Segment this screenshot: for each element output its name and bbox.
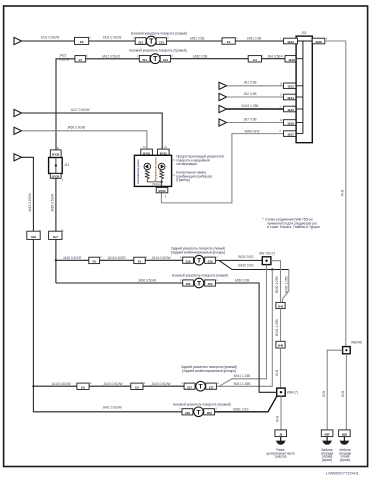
svg-text:Z13: Z13: [159, 40, 164, 44]
off-page connector arrow A3: [14, 127, 22, 134]
svg-text:JB2 0.5B: JB2 0.5B: [244, 92, 257, 96]
svg-text:Контрольная лампа: Контрольная лампа: [153, 157, 157, 181]
svg-text:J41: J41: [64, 163, 69, 167]
junction dot row A branch: [55, 259, 57, 261]
right side pin box row1: [312, 38, 325, 44]
svg-text:EA01 1.25B: EA01 1.25B: [241, 104, 258, 108]
svg-text:H42: H42: [278, 305, 284, 309]
svg-text:E8: E8: [80, 40, 84, 44]
J41 top pin box: [50, 150, 61, 158]
block internal bus: [302, 41, 304, 134]
svg-text:B441 1.25B: B441 1.25B: [234, 374, 251, 378]
block pin stubs: [296, 40, 312, 42]
wire B430 0.5G lower fork: [219, 260, 289, 269]
svg-text:Сигнализатор указат.: Сигнализатор указат.: [136, 159, 140, 184]
wire W-B from block to right trunk: [325, 41, 346, 347]
svg-text:1E16: 1E16: [287, 121, 294, 125]
svg-text:B441 1.25B: B441 1.25B: [275, 319, 279, 336]
svg-text:и стран: Европа, Тайвань и Тур: и стран: Европа, Тайвань и Турция: [267, 225, 320, 229]
cluster bottom pin box: [156, 188, 168, 193]
connector B92: [339, 430, 351, 437]
svg-text:[Задний комбинированный фонарь: [Задний комбинированный фонарь]: [171, 250, 225, 254]
annotation leader line 1: [172, 159, 176, 161]
svg-text:1E6: 1E6: [31, 235, 36, 239]
wire to vertical x33.4: [22, 157, 34, 231]
resistor zigzag right: [160, 170, 164, 182]
lamp A connector right: [205, 257, 216, 263]
svg-text:1E17: 1E17: [287, 132, 294, 136]
svg-text:JA50 0.5G/B: JA50 0.5G/B: [138, 279, 156, 283]
indicator lamp left: [144, 163, 151, 170]
lamp A connector left: [183, 257, 194, 263]
svg-text:1E13: 1E13: [287, 85, 294, 89]
svg-text:JA13 0.5G/W: JA13 0.5G/W: [152, 382, 171, 386]
wire to left ground branch: [327, 350, 342, 430]
wire JA58 0.5G/B to cluster left pin: [22, 131, 147, 149]
wire JA11 0.5G/W segment 2: [89, 40, 136, 42]
connector E4 row1: [222, 38, 235, 44]
connector E3: [134, 257, 145, 263]
wire JA50 0.5B return: [215, 283, 276, 392]
svg-text:WB04B: WB04B: [351, 340, 362, 344]
svg-text:JA12 0.5G/O: JA12 0.5G/O: [102, 54, 121, 58]
wire from WN-750 right down to H42: [271, 261, 281, 303]
off-page connector arrow A6: [219, 93, 227, 100]
J41 bottom pin box: [50, 174, 61, 179]
lamp D bulb: [194, 407, 204, 417]
wire JA17 0.5G/W to cluster right pin: [22, 113, 163, 149]
svg-text:JA13 0.5G/W: JA13 0.5G/W: [28, 193, 32, 212]
wire JB2 0.5B: [227, 96, 284, 98]
off-page connector arrow A2: [14, 109, 22, 116]
junction dot on lower wire: [271, 268, 273, 270]
svg-text:W-B: W-B: [341, 190, 345, 196]
svg-text:WB4 (*): WB4 (*): [287, 391, 298, 395]
svg-text:W-B: W-B: [341, 391, 345, 397]
lamp D connector right: [204, 409, 215, 415]
wire H46 down to junction box WB4: [280, 348, 282, 388]
wire B081 2.0G return to WB4: [215, 396, 277, 412]
svg-text:Боковой указатель поворота (ле: Боковой указатель поворота (левый): [172, 274, 228, 278]
wire JA50 0.5G/B feed: [56, 282, 183, 284]
connector L1: [27, 231, 40, 239]
wire MAIN W-B from cluster ground: [161, 134, 283, 203]
junction block J52: [296, 36, 312, 143]
junction box WB04B: [343, 347, 351, 354]
svg-text:JB7 0.5B: JB7 0.5B: [244, 117, 257, 121]
svg-text:JA51 0.5B: JA51 0.5B: [247, 37, 262, 41]
svg-text:JA58 0.5G/B: JA58 0.5G/B: [67, 125, 85, 129]
wire from junction dot down to row C lower: [217, 270, 272, 387]
svg-text:Z16: Z16: [186, 259, 191, 263]
svg-text:B030 0.5G: B030 0.5G: [238, 255, 254, 259]
connector E8: [75, 37, 89, 44]
connector E6: [77, 383, 89, 389]
svg-text:Z17: Z17: [209, 385, 214, 389]
resistor zigzag left: [145, 170, 149, 182]
lamp B connector right: [205, 280, 216, 286]
wire L1 down to rows C and D: [32, 239, 34, 412]
lamp B bulb: [194, 278, 204, 288]
svg-text:JA13 0.5G/W: JA13 0.5G/W: [104, 382, 123, 386]
svg-text:H46: H46: [278, 344, 284, 348]
wire JB1 0.5B: [227, 85, 284, 87]
svg-text:(Прибор): (Прибор): [152, 183, 162, 186]
svg-text:E7: E7: [79, 58, 83, 62]
svg-text:JA16 0.5G/R: JA16 0.5G/R: [107, 256, 126, 260]
svg-text:JA41 0.5G/W: JA41 0.5G/W: [103, 406, 122, 410]
svg-text:1E15: 1E15: [287, 108, 294, 112]
wire corner from row2 to vertical: [56, 59, 139, 150]
svg-text:1E18: 1E18: [315, 40, 322, 44]
svg-text:E3: E3: [138, 259, 142, 263]
svg-text:1E10: 1E10: [288, 58, 295, 62]
svg-text:JA52 0.5B: JA52 0.5B: [193, 54, 208, 58]
wire JA41 0.5G/W feed: [33, 411, 182, 413]
wire from WB4 down to frame ground: [280, 396, 282, 430]
svg-text:0.5G/B: 0.5G/B: [59, 57, 69, 61]
svg-text:(шасси): (шасси): [275, 455, 287, 459]
svg-text:J52: J52: [301, 31, 306, 35]
svg-text:1E7: 1E7: [53, 235, 58, 239]
wire from WN-750 bottom to row C upper: [219, 265, 267, 387]
cluster top pin box left: [141, 149, 153, 155]
lamp L2 connector left: [139, 55, 150, 62]
connector B2r: [248, 56, 261, 62]
connector J9: [275, 430, 287, 437]
svg-text:JA16 0.5G/R: JA16 0.5G/R: [51, 193, 55, 212]
wire JA11 0.5G/W segment 1: [22, 40, 75, 42]
junction box WN-750: [262, 257, 271, 265]
svg-text:сигнализации: сигнализации: [176, 162, 197, 166]
cluster body: [134, 155, 171, 186]
svg-text:Боковой указатель поворота (пр: Боковой указатель поворота (правый): [173, 403, 230, 407]
off-page connector arrow A1: [14, 37, 22, 44]
svg-text:JB1 0.5B: JB1 0.5B: [244, 81, 257, 85]
wire L2 down to rows A and B: [55, 239, 57, 283]
wire JA16 0.5G/R segment 2: [100, 259, 134, 261]
lamp L1 bulb: [146, 36, 156, 46]
lamp C connector left: [184, 383, 195, 389]
svg-text:JA51 0.5B: JA51 0.5B: [190, 37, 205, 41]
lamp L2 connector right: [160, 55, 170, 62]
svg-text:1E14: 1E14: [287, 96, 294, 100]
connector B2: [75, 56, 86, 62]
off-page connector arrow A8: [219, 119, 227, 126]
off-page connector arrow A5: [219, 82, 227, 89]
wire JA51 0.5B: [167, 40, 284, 42]
svg-text:BY30: BY30: [52, 174, 59, 178]
svg-text:Боковой указатель поворота (пр: Боковой указатель поворота (правый): [129, 48, 186, 52]
indicator lamp right: [158, 163, 165, 170]
svg-text:Z22: Z22: [186, 282, 191, 286]
svg-text:BY02: BY02: [158, 189, 165, 193]
ground symbol frame: [276, 437, 286, 445]
svg-text:B031 1.25B: B031 1.25B: [234, 382, 251, 386]
wire JB4 0.5B segment 2: [262, 58, 286, 60]
svg-text:1E12: 1E12: [287, 40, 294, 44]
wire JA13 0.5G/W segment 1: [33, 385, 77, 387]
svg-text:B081 2.0G: B081 2.0G: [233, 407, 249, 411]
off-page connector arrow A4: [14, 154, 22, 161]
cluster top pin box right: [158, 149, 170, 155]
svg-text:Z14: Z14: [142, 58, 147, 62]
svg-text:E4: E4: [227, 40, 231, 44]
lamp D connector left: [182, 409, 193, 415]
svg-text:Z22: Z22: [208, 282, 213, 286]
svg-text:Z13: Z13: [138, 40, 143, 44]
lamp L2 bulb: [150, 54, 160, 64]
ground symbol cab right: [322, 437, 332, 445]
svg-text:(кузов): (кузов): [340, 458, 350, 462]
svg-text:B030 1.25B: B030 1.25B: [275, 276, 279, 293]
svg-text:E9: E9: [135, 385, 139, 389]
connector E5: [89, 257, 100, 263]
svg-text:JA11 0.5G/W: JA11 0.5G/W: [41, 36, 60, 40]
off-page connector arrow A7: [219, 105, 227, 112]
svg-text:JA14 0.5G/W: JA14 0.5G/W: [152, 256, 171, 260]
svg-text:Z23: Z23: [207, 411, 212, 415]
wire JA13 0.5G/W segment 2: [89, 385, 131, 387]
wire JA13 0.5G/W segment 3: [143, 385, 184, 387]
connector L2: [49, 231, 62, 239]
wire EA01 1.25B: [227, 108, 284, 110]
svg-text:E5: E5: [92, 259, 96, 263]
cluster internal join wire: [147, 182, 161, 187]
relay block pin box row1: [284, 38, 298, 44]
ground symbol cab left: [340, 437, 350, 445]
lamp C bulb: [196, 381, 206, 391]
svg-text:Z14: Z14: [163, 58, 168, 62]
connector E9: [131, 383, 143, 389]
svg-text:B92: B92: [342, 432, 348, 436]
wire JB7 0.5B: [227, 122, 284, 124]
svg-text:E6: E6: [81, 385, 85, 389]
junction dot row C branch: [32, 385, 34, 387]
svg-text:JA16 0.5G/R: JA16 0.5G/R: [63, 256, 82, 260]
wire B030 0.5G upper to WN-750: [215, 259, 262, 261]
wire JA16 0.5G/R segment 1: [56, 259, 89, 261]
svg-text:B430 0.5G: B430 0.5G: [238, 263, 254, 267]
wire H42 to H46: [280, 309, 282, 342]
svg-text:W-B: W-B: [276, 416, 280, 422]
lamp A bulb: [194, 255, 204, 265]
svg-text:Z23: Z23: [185, 411, 190, 415]
svg-text:JA11 0.5G/W: JA11 0.5G/W: [103, 36, 122, 40]
lamp L1 connector Z13 right: [156, 38, 166, 45]
svg-text:E4: E4: [253, 58, 257, 62]
svg-text:[Задний комбинированный фонарь: [Задний комбинированный фонарь]: [182, 369, 236, 373]
svg-text:JA50 0.5B: JA50 0.5B: [235, 279, 250, 283]
svg-text:JA13 0.5G/W: JA13 0.5G/W: [52, 382, 71, 386]
wire JA14 0.5G/W segment: [145, 259, 183, 261]
svg-text:B430 1.25B: B430 1.25B: [285, 276, 289, 293]
svg-text:Боковой указатель поворота (ле: Боковой указатель поворота (левый): [131, 32, 187, 36]
wire from J41 down to connector L2: [55, 178, 57, 231]
J41 body: [49, 158, 63, 174]
connector H46: [276, 341, 285, 348]
svg-text:Z16: Z16: [208, 259, 213, 263]
svg-text:J9: J9: [279, 432, 283, 436]
svg-text:Z17: Z17: [187, 385, 192, 389]
svg-text:WN-750 (*): WN-750 (*): [259, 251, 275, 255]
svg-text:BY30: BY30: [52, 153, 59, 157]
svg-text:W-B: W-B: [275, 370, 279, 376]
connector B87: [321, 430, 333, 437]
svg-text:JB4 0.5B: JB4 0.5B: [268, 54, 281, 58]
junction box WB4: [277, 388, 286, 396]
svg-text:(кузов): (кузов): [322, 458, 332, 462]
wire jog from B430 corner into H42: [283, 270, 289, 303]
lamp C connector right: [206, 383, 217, 389]
lamp B connector left: [183, 280, 194, 286]
wire down from junction box: [345, 354, 347, 430]
svg-text:JA17 0.5G/W: JA17 0.5G/W: [71, 108, 90, 112]
wire JA52 0.5B segment: [171, 58, 249, 60]
svg-text:MAIN W-B: MAIN W-B: [245, 129, 260, 133]
svg-text:B87: B87: [325, 432, 331, 436]
svg-text:LIWB50XYT224H1: LIWB50XYT224H1: [326, 470, 359, 475]
connector H42: [276, 302, 285, 308]
annotation leader line 2: [172, 174, 176, 176]
svg-text:(Прибор): (Прибор): [176, 178, 190, 182]
lamp L1 connector Z13 left: [135, 38, 146, 45]
svg-text:W-B: W-B: [322, 391, 326, 397]
